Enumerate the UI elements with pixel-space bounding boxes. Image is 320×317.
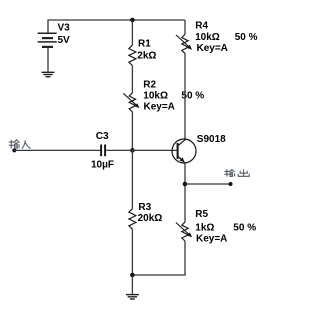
label input [9, 140, 31, 149]
wire top rail to R1 [131, 20, 133, 45]
wire R2 to input node [131, 112, 133, 151]
svg-text:2kΩ: 2kΩ [137, 51, 156, 62]
svg-text:R4: R4 [195, 21, 208, 32]
potentiometer R4 [176, 34, 192, 53]
svg-text:R1: R1 [138, 39, 151, 50]
value 10k ohm [195, 32, 220, 43]
resistor R1 [129, 45, 136, 65]
svg-text:10µF: 10µF [91, 160, 114, 171]
svg-text:Key=A: Key=A [144, 102, 175, 113]
svg-text:50 %: 50 % [235, 32, 258, 43]
wire R5 to bottom rail [132, 241, 185, 275]
label Key=A [144, 102, 175, 113]
capacitor C3 [101, 145, 105, 157]
label Key=A [196, 234, 227, 245]
value 50 % of R2 [181, 91, 204, 102]
label Key=A [197, 43, 228, 54]
svg-text:C3: C3 [96, 131, 109, 142]
svg-text:V3: V3 [58, 22, 71, 33]
svg-text:Key=A: Key=A [196, 234, 227, 245]
value 20k ohm [138, 213, 163, 224]
wire input to C3 [14, 149, 100, 151]
node base junction [130, 148, 135, 153]
ground main [126, 295, 139, 299]
label V3 [58, 22, 71, 33]
potentiometer R5 [176, 222, 192, 241]
svg-text:R3: R3 [138, 202, 151, 213]
svg-text:R2: R2 [143, 79, 156, 90]
value 50 % of R5 [233, 222, 256, 233]
ground under battery [42, 72, 55, 76]
wire emitter down to R5 [184, 163, 186, 223]
node junction top of R1 [130, 18, 135, 23]
svg-text:R5: R5 [195, 209, 208, 220]
node input terminal [12, 148, 16, 152]
wire R3 to ground node [131, 229, 133, 275]
wire battery negative to ground [47, 48, 49, 72]
value 1k ohm [195, 222, 214, 233]
value 50 % of R4 [235, 32, 258, 43]
svg-text:50 %: 50 % [233, 222, 256, 233]
label C3 [96, 131, 109, 142]
svg-text:5V: 5V [58, 35, 71, 46]
wire R4 branch down [184, 20, 186, 34]
resistor R3 [129, 209, 136, 229]
wire R1 to R2 [131, 66, 133, 93]
value 5V [58, 35, 71, 46]
wire output [185, 183, 231, 185]
node output terminal [229, 182, 233, 186]
svg-text:1kΩ: 1kΩ [195, 222, 214, 233]
label R5 [195, 209, 208, 220]
label R2 [143, 79, 156, 90]
battery V3 [38, 33, 57, 47]
svg-text:10kΩ: 10kΩ [195, 32, 220, 43]
label R1 [138, 39, 151, 50]
svg-text:S9018: S9018 [197, 134, 226, 145]
label S9018 [197, 134, 226, 145]
svg-text:10kΩ: 10kΩ [143, 91, 168, 102]
value 2k ohm [137, 51, 156, 62]
transistor Q1 S9018 [172, 139, 196, 163]
wire to main ground [131, 275, 133, 294]
node emitter output junction [183, 182, 188, 187]
wire R4 to collector [184, 53, 186, 140]
wire node to R3 [131, 150, 133, 208]
label R4 [195, 21, 208, 32]
value 10k ohm [143, 91, 168, 102]
value 10uF [91, 160, 114, 171]
svg-text:20kΩ: 20kΩ [138, 213, 163, 224]
wire top rail from V3 to R4 branch [48, 20, 185, 33]
node ground junction [130, 273, 135, 278]
svg-text:Key=A: Key=A [197, 43, 228, 54]
label output [224, 169, 249, 176]
label R3 [138, 202, 151, 213]
potentiometer R2 [123, 93, 139, 112]
wire C3 to base [106, 149, 177, 151]
